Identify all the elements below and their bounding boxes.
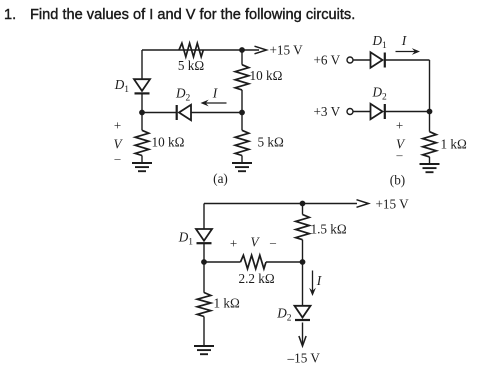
caption (a) bbox=[213, 171, 228, 186]
svg-text:+6 V: +6 V bbox=[314, 52, 341, 67]
wire from 10k resistor to ground of (a) left bbox=[141, 156, 143, 164]
svg-text:D2: D2 bbox=[372, 85, 388, 103]
svg-text:1 kΩ: 1 kΩ bbox=[441, 137, 467, 152]
label I current of circuit (b) bbox=[401, 33, 408, 48]
wire from 2.2k resistor to right node bbox=[266, 261, 303, 263]
label D1 of bottom circuit bbox=[178, 230, 194, 248]
label D1 of circuit (b) bbox=[372, 33, 388, 51]
svg-text:1 kΩ: 1 kΩ bbox=[214, 296, 240, 311]
resistor 5 kOhm right of circuit (a) bbox=[235, 130, 249, 155]
svg-text:–: – bbox=[114, 151, 122, 165]
resistor 1 kOhm of bottom circuit bbox=[197, 293, 211, 317]
label +15 V supply of bottom circuit bbox=[376, 196, 410, 211]
label +6 V source of circuit (b) bbox=[314, 52, 341, 67]
junction node dot at +15V branch top of (a) bbox=[239, 47, 245, 53]
svg-text:+15 V: +15 V bbox=[270, 43, 304, 58]
label +15 V supply of circuit (a) bbox=[270, 43, 304, 58]
svg-text:–15 V: –15 V bbox=[287, 351, 321, 366]
svg-text:I: I bbox=[401, 33, 408, 48]
svg-text:5 kΩ: 5 kΩ bbox=[178, 58, 204, 73]
label I current of bottom circuit bbox=[316, 273, 323, 288]
wire from +6V terminal to D1 of (b) bbox=[353, 59, 371, 61]
svg-text:D1: D1 bbox=[372, 33, 388, 51]
wire left rail of bottom circuit down to D1 bbox=[203, 204, 205, 230]
svg-text:1.5 kΩ: 1.5 kΩ bbox=[311, 222, 347, 237]
svg-text:+3 V: +3 V bbox=[314, 104, 341, 119]
terminal circle +6V of (b) bbox=[347, 57, 353, 63]
label D1 of circuit (a) bbox=[114, 77, 130, 95]
svg-text:–: – bbox=[396, 148, 404, 162]
top wire of bottom circuit from D1 rail to +15V node bbox=[204, 203, 303, 205]
wire from right 5k to ground of (a) bbox=[241, 156, 243, 164]
minus sign of V polarity in bottom circuit bbox=[269, 235, 277, 249]
svg-text:(a): (a) bbox=[213, 171, 228, 186]
label 2.2 kOhm bbox=[239, 271, 275, 286]
svg-text:V: V bbox=[113, 137, 123, 152]
wire left rail of (a) from top wire down to D1 anode bbox=[141, 50, 143, 80]
resistor 1 kOhm of circuit (b) bbox=[423, 132, 437, 157]
wire from lower node to 5k resistor of (a) bbox=[241, 113, 243, 131]
label V across 1 kOhm resistor in (b) bbox=[396, 137, 406, 152]
wire from 1k resistor to ground of (b) bbox=[429, 157, 431, 164]
label 10 kOhm left resistor of (a) bbox=[152, 135, 185, 150]
label D2 of circuit (b) bbox=[372, 85, 388, 103]
ground symbol left of circuit (a) bbox=[132, 163, 152, 171]
label I current in circuit (a) bbox=[212, 86, 219, 101]
wire from D2 anode to right rail of (a) bbox=[191, 112, 242, 114]
wire from D1 cathode to node V of (a) bbox=[141, 94, 143, 114]
label 1 kOhm of bottom circuit bbox=[214, 296, 240, 311]
label D2 of bottom circuit bbox=[276, 306, 292, 324]
label +3 V source of circuit (b) bbox=[314, 104, 341, 119]
supply arrow to +15 V in circuit (a) bbox=[242, 46, 267, 54]
diode D2 of bottom circuit, pointing down bbox=[295, 306, 311, 320]
terminal circle +3V of (b) bbox=[347, 109, 353, 115]
wire from 1.5k resistor to right node bbox=[302, 240, 304, 262]
plus sign of V polarity in bottom circuit bbox=[230, 236, 237, 251]
resistor 10 kOhm left of circuit (a) bbox=[135, 130, 149, 155]
wire from node V to D2 cathode bar in (a) bbox=[142, 112, 177, 114]
resistor 10 kOhm right of circuit (a) bbox=[235, 65, 249, 90]
current arrow I pointing right in (b) bbox=[396, 48, 421, 55]
junction node dot at V node of (a) bbox=[139, 110, 145, 116]
label 1.5 kOhm bbox=[311, 222, 347, 237]
wire from D1 cathode to left node of bottom circuit bbox=[203, 243, 205, 262]
svg-text:D1: D1 bbox=[114, 77, 130, 95]
minus sign of V polarity in (a) bbox=[114, 151, 122, 165]
svg-text:+: + bbox=[396, 117, 403, 132]
junction node dot right of bottom circuit bbox=[300, 259, 306, 265]
svg-text:5 kΩ: 5 kΩ bbox=[258, 135, 284, 150]
diode D1 of circuit (b), pointing right bbox=[371, 52, 385, 67]
label -15 V supply bbox=[287, 351, 321, 366]
wire from right node down to D2 of bottom circuit bbox=[302, 262, 304, 306]
svg-text:I: I bbox=[212, 86, 219, 101]
wire from 1k resistor to ground of bottom circuit bbox=[203, 317, 205, 347]
wire from node down to 1k resistor of (b) bbox=[429, 112, 431, 132]
caption (b) bbox=[390, 173, 405, 188]
diode D1 of bottom circuit, pointing down bbox=[196, 229, 212, 243]
svg-text:D2: D2 bbox=[276, 306, 292, 324]
wire from +15V node down to 10k of (a) right bbox=[241, 50, 243, 65]
wire from left node to 2.2k resistor bbox=[204, 261, 241, 263]
resistor 2.2 kOhm horizontal of bottom circuit bbox=[241, 255, 267, 269]
wire from D1 cathode to corner of (b) bbox=[385, 59, 430, 61]
problem title text bbox=[4, 7, 494, 23]
diode D2 of circuit (b), pointing right bbox=[371, 104, 385, 119]
wire right rail of (b) from corner down to node bbox=[429, 60, 431, 112]
minus sign of V polarity in (b) bbox=[396, 148, 404, 162]
plus sign of V polarity in (b) bbox=[396, 117, 403, 132]
label 5 kOhm for top resistor of (a) bbox=[178, 58, 204, 73]
diode D1 of circuit (a), pointing down bbox=[134, 79, 150, 93]
svg-text:2.2 kΩ: 2.2 kΩ bbox=[239, 271, 275, 286]
svg-text:+: + bbox=[230, 236, 237, 251]
svg-text:+15 V: +15 V bbox=[376, 196, 410, 211]
wire from D2 cathode to node of (b) bbox=[385, 111, 430, 113]
current arrow I pointing left in (a) bbox=[201, 100, 227, 107]
svg-text:V: V bbox=[250, 235, 260, 250]
ground symbol right of circuit (a) bbox=[232, 163, 252, 171]
wire from right 10k down to lower node of (a) bbox=[241, 90, 243, 113]
label V across 2.2 kOhm resistor bbox=[250, 235, 260, 250]
junction node dot at top of bottom circuit bbox=[300, 201, 306, 207]
svg-text:–: – bbox=[269, 235, 277, 249]
label V across 10 kOhm resistor in (a) bbox=[113, 137, 123, 152]
ground symbol of bottom circuit bbox=[194, 346, 214, 354]
ground symbol of circuit (b) bbox=[420, 164, 440, 172]
plus sign of V polarity in (a) bbox=[114, 117, 121, 132]
label 1 kOhm resistor of (b) bbox=[441, 137, 467, 152]
wire from top node down to 1.5k resistor bbox=[302, 204, 304, 215]
svg-text:D2: D2 bbox=[175, 86, 191, 104]
current arrow I downward in bottom circuit bbox=[309, 271, 316, 297]
junction node dot left of bottom circuit bbox=[201, 259, 207, 265]
resistor 5 kOhm horizontal in top wire of circuit (a) bbox=[179, 43, 203, 57]
svg-text:10 kΩ: 10 kΩ bbox=[250, 68, 283, 83]
label D2 of circuit (a) bbox=[175, 86, 191, 104]
svg-text:10 kΩ: 10 kΩ bbox=[152, 135, 185, 150]
svg-text:(b): (b) bbox=[390, 173, 405, 188]
wire from left node down to 1k resistor bbox=[203, 262, 205, 293]
diode D2 of circuit (a), pointing left bbox=[177, 105, 191, 120]
junction node dot of circuit (b) bbox=[427, 109, 433, 115]
wire from +3V terminal to D2 of (b) bbox=[353, 111, 371, 113]
wire from node V to 10k resistor of (a) bbox=[141, 113, 143, 131]
label 5 kOhm right resistor of (a) bbox=[258, 135, 284, 150]
circuit (a) top wire from D1 rail to +15V node bbox=[142, 49, 242, 51]
junction node dot lower right of (a) bbox=[239, 110, 245, 116]
supply arrow to +15 V in bottom circuit bbox=[303, 200, 369, 208]
svg-text:D1: D1 bbox=[178, 230, 194, 248]
label 10 kOhm right resistor of (a) bbox=[250, 68, 283, 83]
svg-text:I: I bbox=[316, 273, 323, 288]
supply arrow to -15 V below D2 bbox=[299, 323, 306, 347]
resistor 1.5 kOhm of bottom circuit bbox=[296, 215, 310, 240]
svg-text:+: + bbox=[114, 117, 121, 132]
